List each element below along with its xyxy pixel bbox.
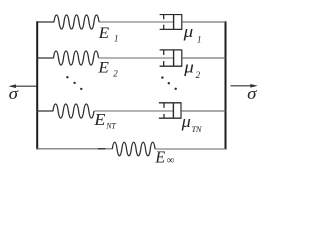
svg-text:NT: NT bbox=[105, 121, 116, 130]
right rail bbox=[225, 21, 227, 149]
svg-text:μ: μ bbox=[183, 57, 194, 76]
wire bottom left bbox=[37, 148, 113, 150]
wire branch1 right bbox=[182, 21, 226, 23]
wire branch2 right bbox=[182, 57, 226, 59]
label E1 bbox=[98, 25, 119, 44]
svg-text:E: E bbox=[93, 110, 105, 129]
dashpot M1 bbox=[160, 14, 183, 30]
wire branch3 left stub bbox=[37, 110, 54, 112]
spring ENT bbox=[53, 104, 94, 118]
svg-text:σ: σ bbox=[247, 84, 257, 103]
label mu2 bbox=[183, 57, 200, 80]
wire branch2 left stub bbox=[37, 57, 54, 59]
ellipsis dots right column bbox=[161, 76, 177, 90]
svg-text:1: 1 bbox=[114, 34, 119, 44]
stress arrow sigma right bbox=[231, 84, 258, 103]
label ENT bbox=[93, 110, 116, 130]
svg-text:μ: μ bbox=[181, 112, 191, 131]
spring E1 bbox=[54, 15, 99, 29]
wire branch3 right bbox=[181, 110, 226, 112]
svg-text:μ: μ bbox=[182, 22, 193, 41]
svg-text:E: E bbox=[154, 147, 165, 166]
spring Einf bbox=[112, 142, 155, 156]
svg-text:∞: ∞ bbox=[167, 154, 175, 166]
svg-text:E: E bbox=[98, 25, 110, 42]
wire branch3 middle bbox=[94, 110, 174, 112]
spring E2 bbox=[54, 51, 99, 65]
stress arrow sigma left bbox=[8, 84, 36, 103]
wire branch1 left stub bbox=[37, 21, 55, 23]
label E2 bbox=[97, 60, 118, 79]
dashpot M2 bbox=[160, 50, 183, 67]
svg-text:2: 2 bbox=[196, 70, 201, 80]
label muTN bbox=[181, 112, 203, 134]
label Einf bbox=[154, 147, 174, 166]
ellipsis dots left column bbox=[66, 76, 82, 90]
wire bottom right bbox=[155, 148, 226, 150]
wire bottom dark dash bbox=[98, 148, 106, 150]
wire branch2 middle bbox=[99, 57, 174, 59]
label mu1 bbox=[182, 22, 201, 44]
dashpot MTN bbox=[159, 102, 182, 118]
svg-text:TN: TN bbox=[192, 124, 203, 134]
wire branch1 middle bbox=[99, 21, 174, 23]
svg-text:E: E bbox=[97, 60, 109, 77]
svg-text:2: 2 bbox=[113, 69, 118, 79]
svg-text:1: 1 bbox=[197, 34, 202, 44]
svg-text:σ: σ bbox=[9, 84, 19, 103]
left rail bbox=[36, 21, 38, 149]
